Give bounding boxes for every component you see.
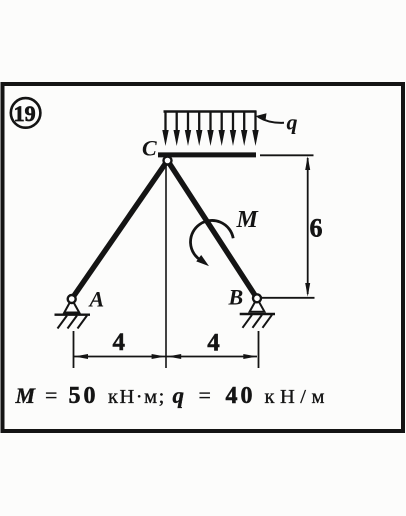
svg-text:q: q — [287, 110, 298, 135]
pin joint C — [164, 157, 172, 165]
moment arc M — [191, 220, 234, 260]
bottom extension line from B — [262, 297, 315, 299]
svg-text:40: 40 — [226, 383, 256, 409]
badge circle 19 — [11, 98, 41, 128]
support B hatching — [243, 315, 253, 328]
distributed load q: top line — [164, 110, 257, 113]
svg-text:B: B — [228, 285, 244, 310]
q leader arrow — [258, 117, 284, 123]
svg-text:6: 6 — [310, 214, 323, 243]
center construction line — [165, 160, 167, 368]
svg-text:4: 4 — [113, 329, 126, 356]
svg-text:q: q — [173, 383, 185, 408]
svg-text:M: M — [236, 207, 260, 233]
frame border — [3, 84, 404, 431]
formula text — [15, 383, 330, 410]
svg-text:19: 19 — [14, 101, 36, 126]
svg-text:A: A — [88, 287, 105, 312]
svg-text:4: 4 — [207, 330, 220, 357]
left dimension tick — [73, 331, 75, 368]
top extension line — [260, 154, 314, 156]
svg-text:50: 50 — [69, 383, 99, 409]
svg-text:кН/м: кН/м — [265, 386, 330, 408]
vertical dimension line 6 — [307, 158, 309, 294]
horizontal dimension line 4+4 — [74, 356, 257, 358]
svg-text:=: = — [45, 383, 57, 408]
right dimension tick — [258, 331, 260, 368]
svg-text:C: C — [142, 136, 157, 161]
member CB — [168, 161, 258, 299]
support B ground line — [240, 313, 275, 315]
support B: pin circle — [240, 294, 275, 328]
support A: pin circle — [55, 295, 91, 329]
svg-text:кН·м;: кН·м; — [108, 386, 166, 408]
distributed load q: arrows — [162, 111, 258, 146]
support A ground line — [55, 314, 91, 316]
beam C to right (thick) — [158, 152, 256, 157]
svg-text:=: = — [199, 383, 211, 408]
svg-text:M: M — [15, 383, 37, 408]
member CA — [72, 161, 168, 300]
support A hatching — [58, 316, 68, 329]
